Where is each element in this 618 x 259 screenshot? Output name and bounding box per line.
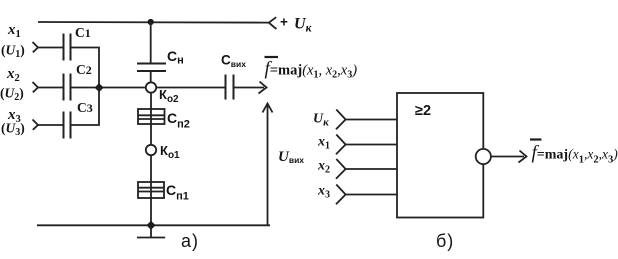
- wire x3 to gate: [346, 194, 397, 196]
- input arrow x3 gate: [336, 185, 346, 205]
- capacitor C2: [64, 74, 71, 101]
- wire bottom rail: [37, 224, 270, 226]
- capacitor C3: [64, 112, 71, 139]
- svg-text:Ко1: Ко1: [160, 143, 180, 161]
- wire K02 to K01 through Cp2: [150, 93, 152, 145]
- wire C2 to node K02: [71, 87, 146, 89]
- svg-text:f=maj(x1, x2,x3): f=maj(x1, x2,x3): [265, 59, 358, 81]
- wire Uvych measure line: [267, 104, 269, 225]
- svg-text:Cн: Cн: [167, 48, 184, 67]
- wire K02 to Cvych: [156, 87, 225, 89]
- input arrow Uk: [336, 110, 346, 130]
- input arrow x1: [33, 42, 39, 52]
- input arrow x3: [33, 120, 39, 130]
- svg-text:Uк: Uк: [313, 112, 329, 129]
- svg-text:f=maj(x1,x2,x3): f=maj(x1,x2,x3): [532, 143, 618, 166]
- label f=maj output b: [530, 140, 618, 166]
- node bottom junction: [146, 221, 155, 230]
- capacitor CH: [137, 64, 166, 72]
- svg-text:C2: C2: [76, 62, 92, 77]
- gate U1 body: [397, 93, 483, 218]
- svg-text:Cп1: Cп1: [166, 182, 189, 203]
- wire x2 to gate: [346, 168, 397, 170]
- wire x1 to C1: [38, 47, 63, 49]
- capacitor Cp1: [138, 182, 164, 198]
- node K01: [146, 145, 156, 155]
- wire x3 to C3: [38, 124, 63, 126]
- svg-text:x2: x2: [317, 159, 330, 176]
- svg-text:C3: C3: [77, 100, 93, 115]
- inverter bubble: [476, 149, 491, 164]
- input arrow x2 gate: [336, 159, 346, 179]
- svg-text:x1: x1: [317, 135, 330, 152]
- svg-text:б): б): [436, 231, 454, 251]
- svg-text:+: +: [280, 15, 288, 30]
- svg-text:Uвих: Uвих: [278, 149, 304, 165]
- wire x2 to C2: [38, 87, 63, 89]
- svg-text:(U1): (U1): [1, 43, 25, 61]
- arrowhead Uvych up: [263, 104, 273, 113]
- input arrow x1 gate: [336, 135, 346, 155]
- ground: [137, 225, 165, 237]
- svg-text:≥2: ≥2: [415, 103, 431, 119]
- svg-text:(U2): (U2): [0, 86, 24, 104]
- node junction A: [95, 83, 104, 92]
- wire top +Uk rail: [38, 21, 269, 24]
- wire rail to CH: [150, 22, 152, 63]
- wire C3 to bus: [71, 88, 100, 126]
- wire Cvych to output: [234, 87, 265, 89]
- svg-text:Cп2: Cп2: [167, 110, 190, 131]
- svg-text:Ко2: Ко2: [159, 87, 179, 105]
- svg-text:x2: x2: [6, 66, 20, 84]
- wire CH to K02: [150, 71, 152, 82]
- wire K01 to ground rail through Cp1: [150, 155, 152, 225]
- svg-text:Cвих: Cвих: [221, 53, 246, 70]
- output arrowhead b: [519, 151, 527, 163]
- wire C1 to bus: [71, 48, 100, 88]
- input arrow x2: [33, 82, 39, 92]
- node top rail junction: [148, 19, 154, 25]
- capacitor Cvych: [226, 75, 234, 100]
- svg-text:Uк: Uк: [294, 16, 313, 35]
- svg-text:x1: x1: [7, 22, 21, 40]
- wire gate output: [491, 156, 524, 158]
- svg-text:(U3): (U3): [1, 121, 25, 139]
- svg-text:x3: x3: [317, 184, 330, 201]
- node K02: [146, 82, 156, 92]
- label f=maj output a: [265, 57, 358, 81]
- power +Uk arrowhead: [269, 17, 277, 29]
- svg-text:а): а): [181, 231, 199, 251]
- wire x1 to gate: [346, 144, 397, 146]
- wire Uk to gate: [346, 119, 397, 121]
- capacitor Cp2: [138, 109, 165, 124]
- label +Uk: [280, 15, 313, 35]
- capacitor C1: [64, 34, 71, 61]
- svg-text:C1: C1: [75, 25, 91, 40]
- output arrowhead a: [259, 82, 267, 94]
